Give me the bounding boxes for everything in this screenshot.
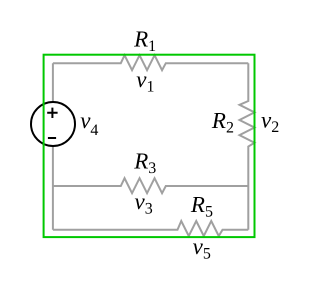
- svg-text:v4: v4: [80, 108, 98, 139]
- svg-text:R5: R5: [190, 192, 213, 221]
- svg-text:R2: R2: [211, 108, 234, 136]
- svg-text:v1: v1: [136, 67, 154, 96]
- svg-text:v2: v2: [261, 107, 279, 135]
- svg-text:R3: R3: [133, 149, 156, 178]
- svg-text:v5: v5: [193, 234, 211, 263]
- svg-text:R1: R1: [133, 27, 156, 56]
- svg-text:v3: v3: [135, 189, 153, 218]
